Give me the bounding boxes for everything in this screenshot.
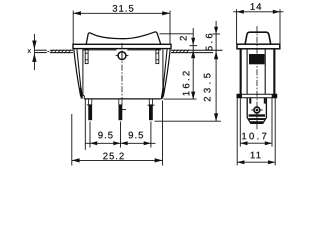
rocker top extension line [160,33,194,35]
spring bar 1 [249,114,265,116]
body outer wall left side [240,49,242,94]
dimension line B vertical [215,21,217,121]
dimension text 2 [180,36,187,40]
terminal 3 [148,99,155,120]
spring bar 2 [249,118,265,120]
dimension 31.5 line [73,11,170,15]
body bottom line [84,98,161,100]
body corner extension line [84,99,86,150]
peg right [264,98,266,104]
dimension 14 line [233,10,283,14]
mounting clip right [161,49,170,98]
dimension text 11 [251,152,261,159]
dimension 16.2 arrows [191,50,195,99]
dimension 10.7 line [240,141,272,145]
dimension 10.7 extension lines [240,98,272,147]
body top line [83,49,161,51]
panel right bottom line [171,52,213,54]
rocker actuator side [245,32,271,44]
rib right [156,49,159,63]
dimension 14 extension lines [237,9,280,44]
panel right top line [171,49,223,51]
terminal 2 [119,99,127,120]
dimension 25.2 extension line right [162,101,164,166]
pivot circle [116,51,129,61]
panel left top line [35,49,73,51]
body inner wall lines [247,49,265,94]
centerline side [256,26,258,130]
dimension text 9.5 left [98,132,112,139]
dimension 9.5 extension lines [90,122,151,148]
panel thickness arrow upper [32,41,36,50]
peg left [249,98,251,104]
dimension 5.6 top arrow [214,27,218,34]
dimension line A vertical [192,28,194,99]
dimension 31.5 extension line left [72,11,74,45]
panel thickness arrow lower [32,53,36,62]
dimension text 9.5 right [129,132,143,139]
dimension 2 arrow [191,38,195,46]
body side left [83,49,84,99]
dimension text 10.7 [242,133,266,140]
terminal 1 [87,99,92,120]
side circle [251,107,262,113]
body side right [162,49,163,99]
dimension text 25.2 [103,153,124,160]
panel thickness dimension line [33,34,35,70]
dimension 25.2 line [72,158,163,162]
flange top extension tick [189,45,197,47]
dimension 11 extension lines [237,98,275,165]
dimension 23.5 arrows [214,51,218,121]
mounting clip left [74,49,83,98]
mounting rail end cap left [237,94,243,98]
mounting rail lines [237,94,278,98]
dimension 11 line [237,160,275,164]
dimension text 16.2 [183,71,190,95]
panel left hatching [51,50,71,54]
dimension text 31.5 [113,5,134,12]
centerline front [121,43,123,99]
panel left center dash [47,50,49,52]
dimension text 14 [251,3,262,10]
dimension text 23.5 [204,73,211,101]
dimension 25.2 extension line left [71,114,73,166]
spring bar 3 [250,121,263,123]
window black square [249,54,265,64]
panel left bottom line [35,52,73,54]
rib left [85,49,88,63]
rocker top extension tick right [212,33,220,35]
dimension 31.5 extension line right [169,11,171,45]
panel thickness label x [28,49,31,53]
dimension 9.5 line [85,141,155,145]
panel right hatching [172,50,189,54]
dimension text 5.6 [206,34,213,51]
terminal tip extension line [155,120,221,122]
flange side [237,44,280,49]
body bottom extension line [164,98,197,100]
flange front [73,44,171,48]
mounting rail end cap right [272,94,278,98]
body outer wall right side [273,49,275,94]
rocker actuator front [86,32,161,45]
lower housing outline [247,98,266,123]
